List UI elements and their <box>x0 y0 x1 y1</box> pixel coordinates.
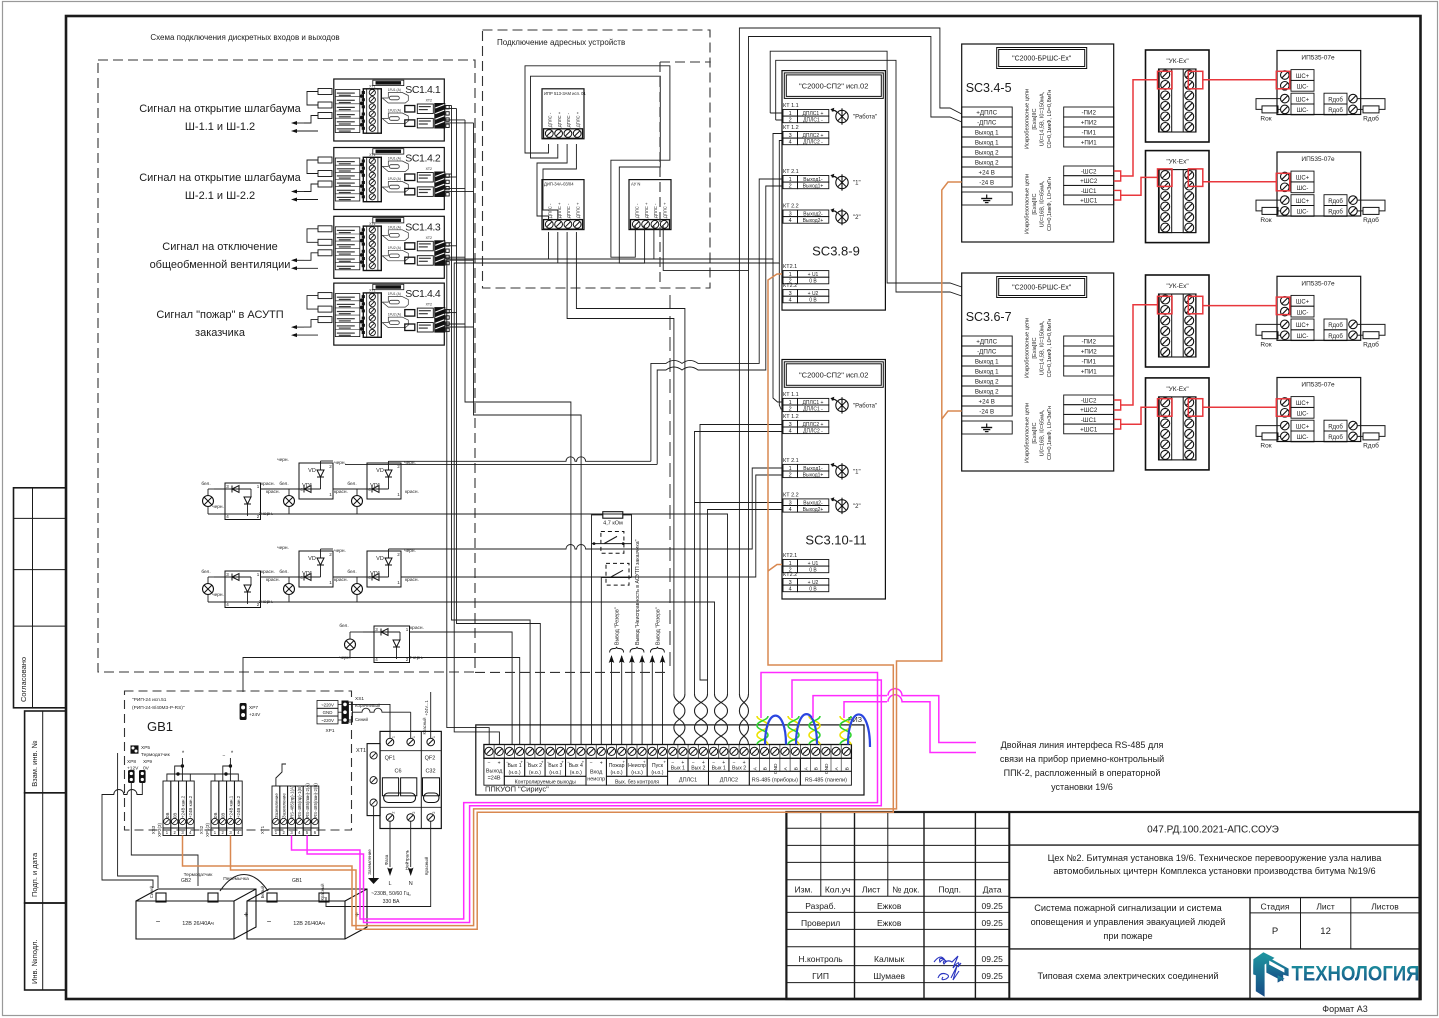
svg-text:+ШС1: +ШС1 <box>1080 198 1098 205</box>
svg-text:GND: GND <box>824 763 830 774</box>
svg-text:+: + <box>582 759 585 764</box>
logo ТЕХНОЛОГИЯ <box>1253 952 1419 997</box>
lamp circuit single module <box>339 623 424 663</box>
svg-text:ШС-: ШС- <box>1297 435 1309 441</box>
terminal group XS2 ХР1(3) <box>199 781 242 837</box>
svg-text:GND: GND <box>323 710 333 715</box>
svg-text:GB1: GB1 <box>292 878 302 884</box>
svg-text:красн.: красн. <box>410 626 424 631</box>
svg-text:черн.: черн. <box>334 461 346 466</box>
svg-text:ДПЛС -: ДПЛС - <box>566 112 571 127</box>
shleif wire ШС2 of SC3.4-5 to УК-Ех #1 and ИП535 #1 <box>1114 71 1290 181</box>
svg-text:"С2000-СП2" исп.02: "С2000-СП2" исп.02 <box>799 371 868 380</box>
svg-text:черн.: черн. <box>212 505 224 510</box>
svg-text:+24В кан.1: +24В кан.1 <box>228 795 233 818</box>
relay module SC1.4.2 <box>334 148 449 210</box>
svg-text:бел.: бел. <box>339 623 348 629</box>
svg-text:[Exia]IIC: [Exia]IIC <box>1032 108 1038 129</box>
svg-text:-ПИ2: -ПИ2 <box>1081 339 1096 346</box>
svg-text:Красный: Красный <box>422 717 427 735</box>
svg-text:Формат А3: Формат А3 <box>1322 1004 1367 1014</box>
СП2 #2 ДПЛС1 wires from top bus <box>773 259 782 409</box>
control panel ППКУОП Сириус box РИЗ <box>476 717 864 795</box>
svg-text:ДПЛС +: ДПЛС + <box>575 111 580 127</box>
svg-text:Вход: Вход <box>590 769 603 775</box>
svg-text:B: B <box>793 767 799 770</box>
svg-text:Ш-1.1 и Ш-1.2: Ш-1.1 и Ш-1.2 <box>185 121 255 133</box>
svg-text:ШС+: ШС+ <box>1296 323 1310 329</box>
svg-text:Взам. инв. №: Взам. инв. № <box>30 740 39 786</box>
svg-text:бел.: бел. <box>201 569 210 575</box>
relay module С2000-СП2 SC3.10-11 <box>782 360 885 600</box>
smoke detector ДИП-34А-03/04 <box>542 180 584 230</box>
svg-text:при пожаре: при пожаре <box>1103 931 1152 941</box>
svg-text:Заземление: Заземление <box>367 849 372 875</box>
relay module С2000-СП2 SC3.8-9 <box>782 71 885 311</box>
left margin inventory table <box>25 711 66 990</box>
connector XP5 Термодатчик <box>131 745 171 758</box>
svg-text:4: 4 <box>789 428 792 434</box>
svg-text:+ШС1: +ШС1 <box>1080 427 1098 434</box>
svg-text:ШС+: ШС+ <box>1296 401 1310 407</box>
svg-text:Нейтраль: Нейтраль <box>404 849 410 870</box>
title block header texts <box>794 885 1003 982</box>
svg-text:Rдоб: Rдоб <box>1328 334 1343 340</box>
svg-text:-ДПЛС: -ДПЛС <box>977 349 997 356</box>
svg-text:ТЕХНОЛОГИЯ: ТЕХНОЛОГИЯ <box>1292 963 1420 986</box>
svg-text:Искробезопасные цепи: Искробезопасные цепи <box>1025 318 1031 378</box>
svg-text:RS-485(пр)-1(A): RS-485(пр)-1(A) <box>289 785 294 818</box>
svg-text:Синий: Синий <box>355 717 369 722</box>
svg-text:Ежков: Ежков <box>877 918 902 928</box>
svg-text:SC3.6-7: SC3.6-7 <box>966 310 1012 324</box>
svg-text:Ежков: Ежков <box>877 901 902 911</box>
svg-text:RS-485 (приборы): RS-485 (приборы) <box>752 777 798 783</box>
svg-text:SC1.4.3: SC1.4.3 <box>405 221 441 233</box>
fire detector ИП535-07е #4 <box>1277 378 1361 442</box>
svg-text:Выход 2: Выход 2 <box>975 379 999 386</box>
svg-text:Rдоб: Rдоб <box>1363 216 1379 224</box>
svg-text:−: − <box>567 759 570 764</box>
svg-text:XT1: XT1 <box>356 748 366 754</box>
svg-text:ДПЛС2 -: ДПЛС2 - <box>803 428 823 434</box>
svg-text:0В: 0В <box>173 813 178 818</box>
svg-text:"1": "1" <box>853 469 861 475</box>
svg-text:[Exia]IIC: [Exia]IIC <box>1032 422 1038 443</box>
svg-text:Rдоб: Rдоб <box>1363 115 1379 123</box>
wire +24V.1 красный to QF2 <box>422 692 431 738</box>
svg-text:черн.: черн. <box>404 549 416 554</box>
lamp circuit row 1 (shlagbaum Ш-1) <box>201 458 419 520</box>
svg-text:Выход: Выход <box>486 768 503 774</box>
svg-text:Лист: Лист <box>862 885 881 895</box>
svg-text:Выход 2: Выход 2 <box>975 160 999 167</box>
svg-text:Выход1+: Выход1+ <box>803 184 824 190</box>
svg-text:12В 26/40Ач: 12В 26/40Ач <box>182 921 214 927</box>
zone expander С2000-БРШС-Ех SC3.4-5 <box>962 44 1114 242</box>
svg-text:+: + <box>541 759 544 764</box>
svg-text:09.25: 09.25 <box>982 901 1004 911</box>
svg-text:Выход 1: Выход 1 <box>975 359 999 366</box>
svg-text:XT2: XT2 <box>426 236 432 240</box>
svg-text:ХР1(3): ХР1(3) <box>205 823 210 838</box>
svg-text:Дата: Дата <box>983 885 1002 895</box>
svg-text:+: + <box>600 760 603 766</box>
svg-text:установки 19/6: установки 19/6 <box>1051 782 1113 792</box>
svg-text:SC3.10-11: SC3.10-11 <box>805 533 866 548</box>
svg-text:Пуск: Пуск <box>652 763 664 769</box>
svg-text:"С2000-СП2" исп.02: "С2000-СП2" исп.02 <box>799 82 868 91</box>
svg-text:Rдоб: Rдоб <box>1328 435 1343 441</box>
svg-text:Коричневый: Коричневый <box>355 703 381 708</box>
svg-text:ДПЛС2: ДПЛС2 <box>720 777 738 783</box>
svg-text:КТ 2.1: КТ 2.1 <box>783 458 799 464</box>
top DPLS bus to БРШС #1 <box>739 28 961 694</box>
connector XS1 ~220V <box>317 696 381 734</box>
resistors Rок / Rдоб of ИП535 #2 <box>1256 200 1385 224</box>
svg-text:−: − <box>590 760 593 766</box>
svg-text:2: 2 <box>789 118 792 124</box>
svg-text:ИПР 513-3АМ исп. 01: ИПР 513-3АМ исп. 01 <box>544 91 586 96</box>
svg-text:2: 2 <box>432 811 436 813</box>
svg-text:связи на прибор приемно-контро: связи на прибор приемно-контрольный <box>1000 754 1164 764</box>
svg-text:+: + <box>561 759 564 764</box>
svg-text:1FU1 (А): 1FU1 (А) <box>388 292 401 296</box>
svg-text:Rок: Rок <box>1260 443 1271 450</box>
addressable devices wiring <box>525 66 749 694</box>
svg-text:Вых 2: Вых 2 <box>732 765 746 771</box>
svg-text:ИП535-07е: ИП535-07е <box>1301 55 1335 62</box>
svg-text:(н.з.): (н.з.) <box>631 770 643 776</box>
svg-text:КТ 1.1: КТ 1.1 <box>783 392 799 398</box>
svg-text:+24 В: +24 В <box>979 170 995 177</box>
svg-text:ДПЛС +: ДПЛС + <box>557 111 562 127</box>
svg-text:КТ2.2: КТ2.2 <box>783 572 797 578</box>
svg-text:−: − <box>526 759 529 764</box>
svg-text:оповещения и управления эвакуа: оповещения и управления эвакуацией людей <box>1031 917 1226 927</box>
svg-text:ШС-: ШС- <box>1297 85 1309 91</box>
svg-text:+ДПЛС: +ДПЛС <box>976 110 997 117</box>
svg-text:"С2000-БРШС-Ех": "С2000-БРШС-Ех" <box>1012 285 1072 292</box>
svg-text:−: − <box>267 917 272 926</box>
svg-text:SC3.8-9: SC3.8-9 <box>812 244 860 259</box>
svg-text:Rдоб: Rдоб <box>1363 340 1379 348</box>
svg-text:Вывод "Резерв": Вывод "Резерв" <box>615 607 621 645</box>
svg-text:Заземление: Заземление <box>282 793 287 818</box>
svg-text:+ДПЛС: +ДПЛС <box>976 339 997 346</box>
svg-text:XT1: XT1 <box>369 85 375 89</box>
svg-text:ДПЛС2 -: ДПЛС2 - <box>803 140 823 146</box>
svg-text:Подп.: Подп. <box>938 885 961 895</box>
svg-text:L: L <box>388 881 391 887</box>
svg-text:ШС-: ШС- <box>1297 310 1309 316</box>
svg-text:-ШС1: -ШС1 <box>1081 417 1097 424</box>
svg-text:КТ 1.1: КТ 1.1 <box>783 103 799 109</box>
svg-text:Фаза: Фаза <box>384 854 389 865</box>
svg-text:Rдоб: Rдоб <box>1328 424 1343 430</box>
RS-485 wire РИП XT1 to Сириус (A) <box>292 673 878 920</box>
svg-text:XT1: XT1 <box>369 222 375 226</box>
СП2 #2 выход2 wires down to Сириус <box>695 503 783 681</box>
addressable devices dashed boundary <box>483 30 711 288</box>
svg-text:С0=0,1мкФ, L0=0,8мГн: С0=0,1мкФ, L0=0,8мГн <box>1047 90 1053 149</box>
svg-text:КТ2.1: КТ2.1 <box>783 264 797 270</box>
resistors Rок / Rдоб of ИП535 #4 <box>1256 426 1385 450</box>
svg-text:ШС+: ШС+ <box>1296 97 1310 103</box>
svg-text:ДИП-34А-03/04: ДИП-34А-03/04 <box>544 182 574 187</box>
svg-text:Стадия: Стадия <box>1261 902 1290 912</box>
svg-text:Искробезопасные цепи: Искробезопасные цепи <box>1025 403 1031 463</box>
svg-text:4,7 кОм: 4,7 кОм <box>603 521 623 527</box>
shleif wire ШС2 of SC3.6-7 to УК-Ех #3 and ИП535 #3 <box>1114 296 1290 410</box>
svg-text:"2": "2" <box>853 215 861 221</box>
manual call point ИПР 513-3АМ <box>542 89 586 139</box>
svg-text:красн.: красн. <box>266 490 280 495</box>
svg-text:ДПЛС +: ДПЛС + <box>662 202 667 218</box>
svg-text:Вых 1: Вых 1 <box>671 765 685 771</box>
svg-text:Rдоб: Rдоб <box>1328 210 1343 216</box>
svg-text:~220V: ~220V <box>321 702 334 707</box>
discrete IO dashed boundary <box>98 60 475 672</box>
svg-text:Калмык: Калмык <box>874 954 905 964</box>
svg-text:бел.: бел. <box>201 481 210 487</box>
svg-text:ДПЛС1 -: ДПЛС1 - <box>803 118 823 124</box>
wires XS1 to QF breakers <box>349 704 411 738</box>
svg-text:Выход 1: Выход 1 <box>975 369 999 376</box>
svg-text:+24 В: +24 В <box>979 399 995 406</box>
svg-text:SC3.4-5: SC3.4-5 <box>966 81 1012 95</box>
svg-text:Типовая схема электрических со: Типовая схема электрических соединений <box>1037 971 1218 981</box>
svg-text:Кол.уч: Кол.уч <box>825 885 851 895</box>
signatures <box>934 956 961 980</box>
svg-text:Листов: Листов <box>1371 902 1399 912</box>
svg-text:4: 4 <box>789 218 792 224</box>
svg-text:RS-485(пр)-1(B): RS-485(пр)-1(B) <box>297 785 302 818</box>
fire detector ИП535-07е #2 <box>1277 152 1361 216</box>
svg-text:Контролируемые выходы: Контролируемые выходы <box>515 779 576 785</box>
svg-text:1FU2 (А): 1FU2 (А) <box>388 246 401 250</box>
svg-text:ИП535-07е: ИП535-07е <box>1301 382 1335 389</box>
svg-text:+24V...1: +24V...1 <box>424 700 429 716</box>
svg-text:Разраб.: Разраб. <box>805 901 836 911</box>
svg-text:ШС-: ШС- <box>1297 186 1309 192</box>
svg-text:ГИП: ГИП <box>812 971 829 981</box>
svg-text:Лист: Лист <box>1316 902 1335 912</box>
addressable box inner dashed division <box>660 62 711 287</box>
svg-text:Сигнал на отключение: Сигнал на отключение <box>162 241 277 253</box>
svg-text:GB1: GB1 <box>147 719 173 734</box>
svg-text:КТ 2.2: КТ 2.2 <box>783 203 799 209</box>
svg-text:1FU2 (А): 1FU2 (А) <box>388 109 401 113</box>
svg-text:бел.: бел. <box>347 569 356 575</box>
svg-text:XP5: XP5 <box>141 745 150 751</box>
svg-text:-24 В: -24 В <box>979 180 994 187</box>
svg-text:красн.: красн. <box>261 482 275 487</box>
svg-text:КТ2.1: КТ2.1 <box>783 553 797 559</box>
zone expander С2000-БРШС-Ех SC3.6-7 <box>962 273 1114 471</box>
svg-text:2: 2 <box>789 406 792 412</box>
svg-text:1FU1 (А): 1FU1 (А) <box>388 88 401 92</box>
svg-text:(н.о.): (н.о.) <box>508 770 520 776</box>
cable screen dashed line <box>669 295 671 672</box>
svg-text:черн.: черн. <box>277 546 289 551</box>
svg-text:С0=0,1мкФ, L0=0,8мГн: С0=0,1мкФ, L0=0,8мГн <box>1047 319 1053 378</box>
svg-text:+ПИ2: +ПИ2 <box>1081 349 1098 356</box>
svg-text:VD: VD <box>376 468 384 474</box>
svg-text:красн.: красн. <box>405 490 419 495</box>
svg-text:(н.о.): (н.о.) <box>549 770 561 776</box>
svg-text:-ШС2: -ШС2 <box>1081 168 1097 175</box>
svg-text:+ПИ1: +ПИ1 <box>1081 140 1098 147</box>
svg-text:U0=14,5В, I0=150мА,: U0=14,5В, I0=150мА, <box>1040 320 1046 375</box>
XT1 hook wire <box>276 764 286 786</box>
svg-text:XT2: XT2 <box>426 99 432 103</box>
svg-text:1: 1 <box>392 736 396 738</box>
svg-text:4: 4 <box>789 140 792 146</box>
СП2 #1 Выход1 wires to lamp row 1 <box>651 179 782 464</box>
svg-text:+24В кан.2: +24В кан.2 <box>188 795 193 818</box>
svg-text:XP1: XP1 <box>325 728 334 734</box>
twisted pair wires above ДПЛС terminals <box>674 694 749 745</box>
svg-text:XT1: XT1 <box>369 289 375 293</box>
title block grid <box>786 812 1419 999</box>
svg-text:ДПЛС +: ДПЛС + <box>644 202 649 218</box>
svg-text:Изм.: Изм. <box>794 885 812 895</box>
power wire 24V channel 1 (orange) to СП2 <box>231 274 894 929</box>
svg-text:ИП535-07е: ИП535-07е <box>1301 280 1335 287</box>
svg-text:Выход 1: Выход 1 <box>975 140 999 147</box>
battery labels and link wires <box>102 753 325 900</box>
svg-text:(РИП-24-8/40М3-Р-RS)": (РИП-24-8/40М3-Р-RS)" <box>132 705 185 711</box>
svg-text:черн.: черн. <box>339 656 351 661</box>
svg-text:черн.: черн. <box>277 458 289 463</box>
svg-text:Rдоб: Rдоб <box>1328 97 1343 103</box>
svg-text:09.25: 09.25 <box>982 971 1004 981</box>
svg-text:2: 2 <box>392 811 396 813</box>
svg-text:XS1: XS1 <box>355 696 364 702</box>
svg-text:~220V: ~220V <box>321 718 334 723</box>
svg-text:Заземление: Заземление <box>274 793 279 818</box>
svg-text:Выход 1: Выход 1 <box>975 130 999 137</box>
svg-text:XS2: XS2 <box>199 825 204 834</box>
svg-text:1FU1 (А): 1FU1 (А) <box>388 225 401 229</box>
reserve contact switch 1 <box>592 532 632 554</box>
svg-text:2: 2 <box>789 184 792 190</box>
svg-text:1: 1 <box>412 736 416 738</box>
svg-text:Rдоб: Rдоб <box>1328 199 1343 205</box>
svg-text:-ДПЛС: -ДПЛС <box>977 120 997 127</box>
svg-text:Подключение адресных устройств: Подключение адресных устройств <box>497 38 625 47</box>
svg-text:XP9: XP9 <box>143 759 152 765</box>
svg-text:SC1.4.4: SC1.4.4 <box>405 288 441 300</box>
svg-text:+24V: +24V <box>249 712 261 718</box>
svg-text:QF2: QF2 <box>425 756 436 762</box>
terminal box УК-Ех #1 <box>1146 50 1210 142</box>
svg-text:Р: Р <box>1272 926 1278 937</box>
power wire 24V channel 2 (orange) to БРШС <box>183 182 962 926</box>
discrete IO section title <box>150 33 339 42</box>
svg-text:Вывод "Неисправность в АСУТП з: Вывод "Неисправность в АСУТП заказчика" <box>635 539 641 645</box>
battery GB2 12В 26/40Ач <box>136 889 256 939</box>
svg-text:красн.: красн. <box>261 570 275 575</box>
svg-text:[Exia]IIC: [Exia]IIC <box>1032 193 1038 214</box>
circuit breaker XT1 strip <box>356 744 380 816</box>
svg-text:SC1.4.1: SC1.4.1 <box>405 84 441 96</box>
svg-text:+ШС2: +ШС2 <box>1080 178 1098 185</box>
svg-text:XT2: XT2 <box>426 303 432 307</box>
lamp circuit interconnect wires <box>243 457 782 745</box>
svg-text:(н.о.): (н.о.) <box>611 770 623 776</box>
svg-text:C32: C32 <box>425 769 435 775</box>
svg-text:XS3: XS3 <box>151 825 156 834</box>
reserve output arrows and labels <box>609 539 666 744</box>
svg-text:VD: VD <box>376 556 384 562</box>
RS-485 double line to ППК-2 (wire 1) <box>813 689 976 743</box>
svg-text:RS-485(пан)-2(A): RS-485(пан)-2(A) <box>305 783 310 818</box>
svg-text:Красный: Красный <box>423 856 429 875</box>
svg-text:"УК-Ех": "УК-Ех" <box>1166 159 1189 166</box>
svg-text:Вых. без контроля: Вых. без контроля <box>615 779 659 785</box>
svg-text:2черн.: 2черн. <box>409 655 423 661</box>
XS3 XS2 jumper wires <box>167 751 238 781</box>
svg-text:ДПЛС1: ДПЛС1 <box>679 777 697 783</box>
battery GB1 12В 26/40Ач <box>247 889 367 939</box>
note text RS-485 <box>1000 740 1164 792</box>
svg-text:Ш-2.1 и Ш-2.2: Ш-2.1 и Ш-2.2 <box>185 190 255 202</box>
svg-text:GND: GND <box>773 763 779 774</box>
addressable devices section title <box>497 38 625 47</box>
svg-text:2: 2 <box>412 811 416 813</box>
svg-text:КТ 2.2: КТ 2.2 <box>783 492 799 498</box>
svg-text:"УК-Ех": "УК-Ех" <box>1166 58 1189 65</box>
svg-text:КТ2.2: КТ2.2 <box>783 283 797 289</box>
title block right part <box>1009 825 1419 1000</box>
svg-text:(н.о.): (н.о.) <box>651 770 663 776</box>
svg-text:Выход2+: Выход2+ <box>803 507 824 513</box>
svg-text:U0=14,5В, I0=150мА,: U0=14,5В, I0=150мА, <box>1040 91 1046 146</box>
svg-text:"УК-Ех": "УК-Ех" <box>1166 386 1189 393</box>
svg-text:~230В, 50/60 Гц,: ~230В, 50/60 Гц, <box>371 891 411 897</box>
svg-text:красн.: красн. <box>405 578 419 583</box>
reserve contact switch 2 <box>601 563 631 585</box>
svg-text:XT1: XT1 <box>260 825 265 834</box>
svg-text:B: B <box>844 767 850 770</box>
svg-text:Искробезопасные цепи: Искробезопасные цепи <box>1025 174 1031 234</box>
Сириус terminal strip <box>484 745 852 759</box>
svg-text:4: 4 <box>789 507 792 513</box>
svg-text:0В: 0В <box>221 813 226 818</box>
svg-text:0В: 0В <box>213 813 218 818</box>
svg-text:1FU1 (А): 1FU1 (А) <box>388 157 401 161</box>
svg-text:−: − <box>156 917 161 926</box>
svg-text:"УК-Ех": "УК-Ех" <box>1166 283 1189 290</box>
svg-text:1FU2 (А): 1FU2 (А) <box>388 177 401 181</box>
svg-text:ШС+: ШС+ <box>1296 300 1310 306</box>
svg-text:общеобменной вентиляции: общеобменной вентиляции <box>150 259 291 271</box>
svg-text:"1": "1" <box>853 181 861 187</box>
svg-text:B: B <box>814 767 820 770</box>
svg-text:"Работа": "Работа" <box>853 403 877 409</box>
svg-text:Сигнал на открытие шлагбаума: Сигнал на открытие шлагбаума <box>139 103 301 115</box>
svg-text:ШС+: ШС+ <box>1296 199 1310 205</box>
svg-text:XP8: XP8 <box>127 759 136 765</box>
svg-text:Цех №2. Битумная установка 19/: Цех №2. Битумная установка 19/6. Техниче… <box>1048 853 1383 863</box>
resistors Rок / Rдоб of ИП535 #3 <box>1256 324 1385 348</box>
svg-text:С0=0,1мкФ, L0=3мГн: С0=0,1мкФ, L0=3мГн <box>1047 177 1053 231</box>
svg-text:U0=16В, I0=65мА,: U0=16В, I0=65мА, <box>1040 180 1046 227</box>
svg-text:047.РД.100.2021-АПС.СОУЭ: 047.РД.100.2021-АПС.СОУЭ <box>1147 825 1279 836</box>
format label <box>1322 1004 1367 1014</box>
